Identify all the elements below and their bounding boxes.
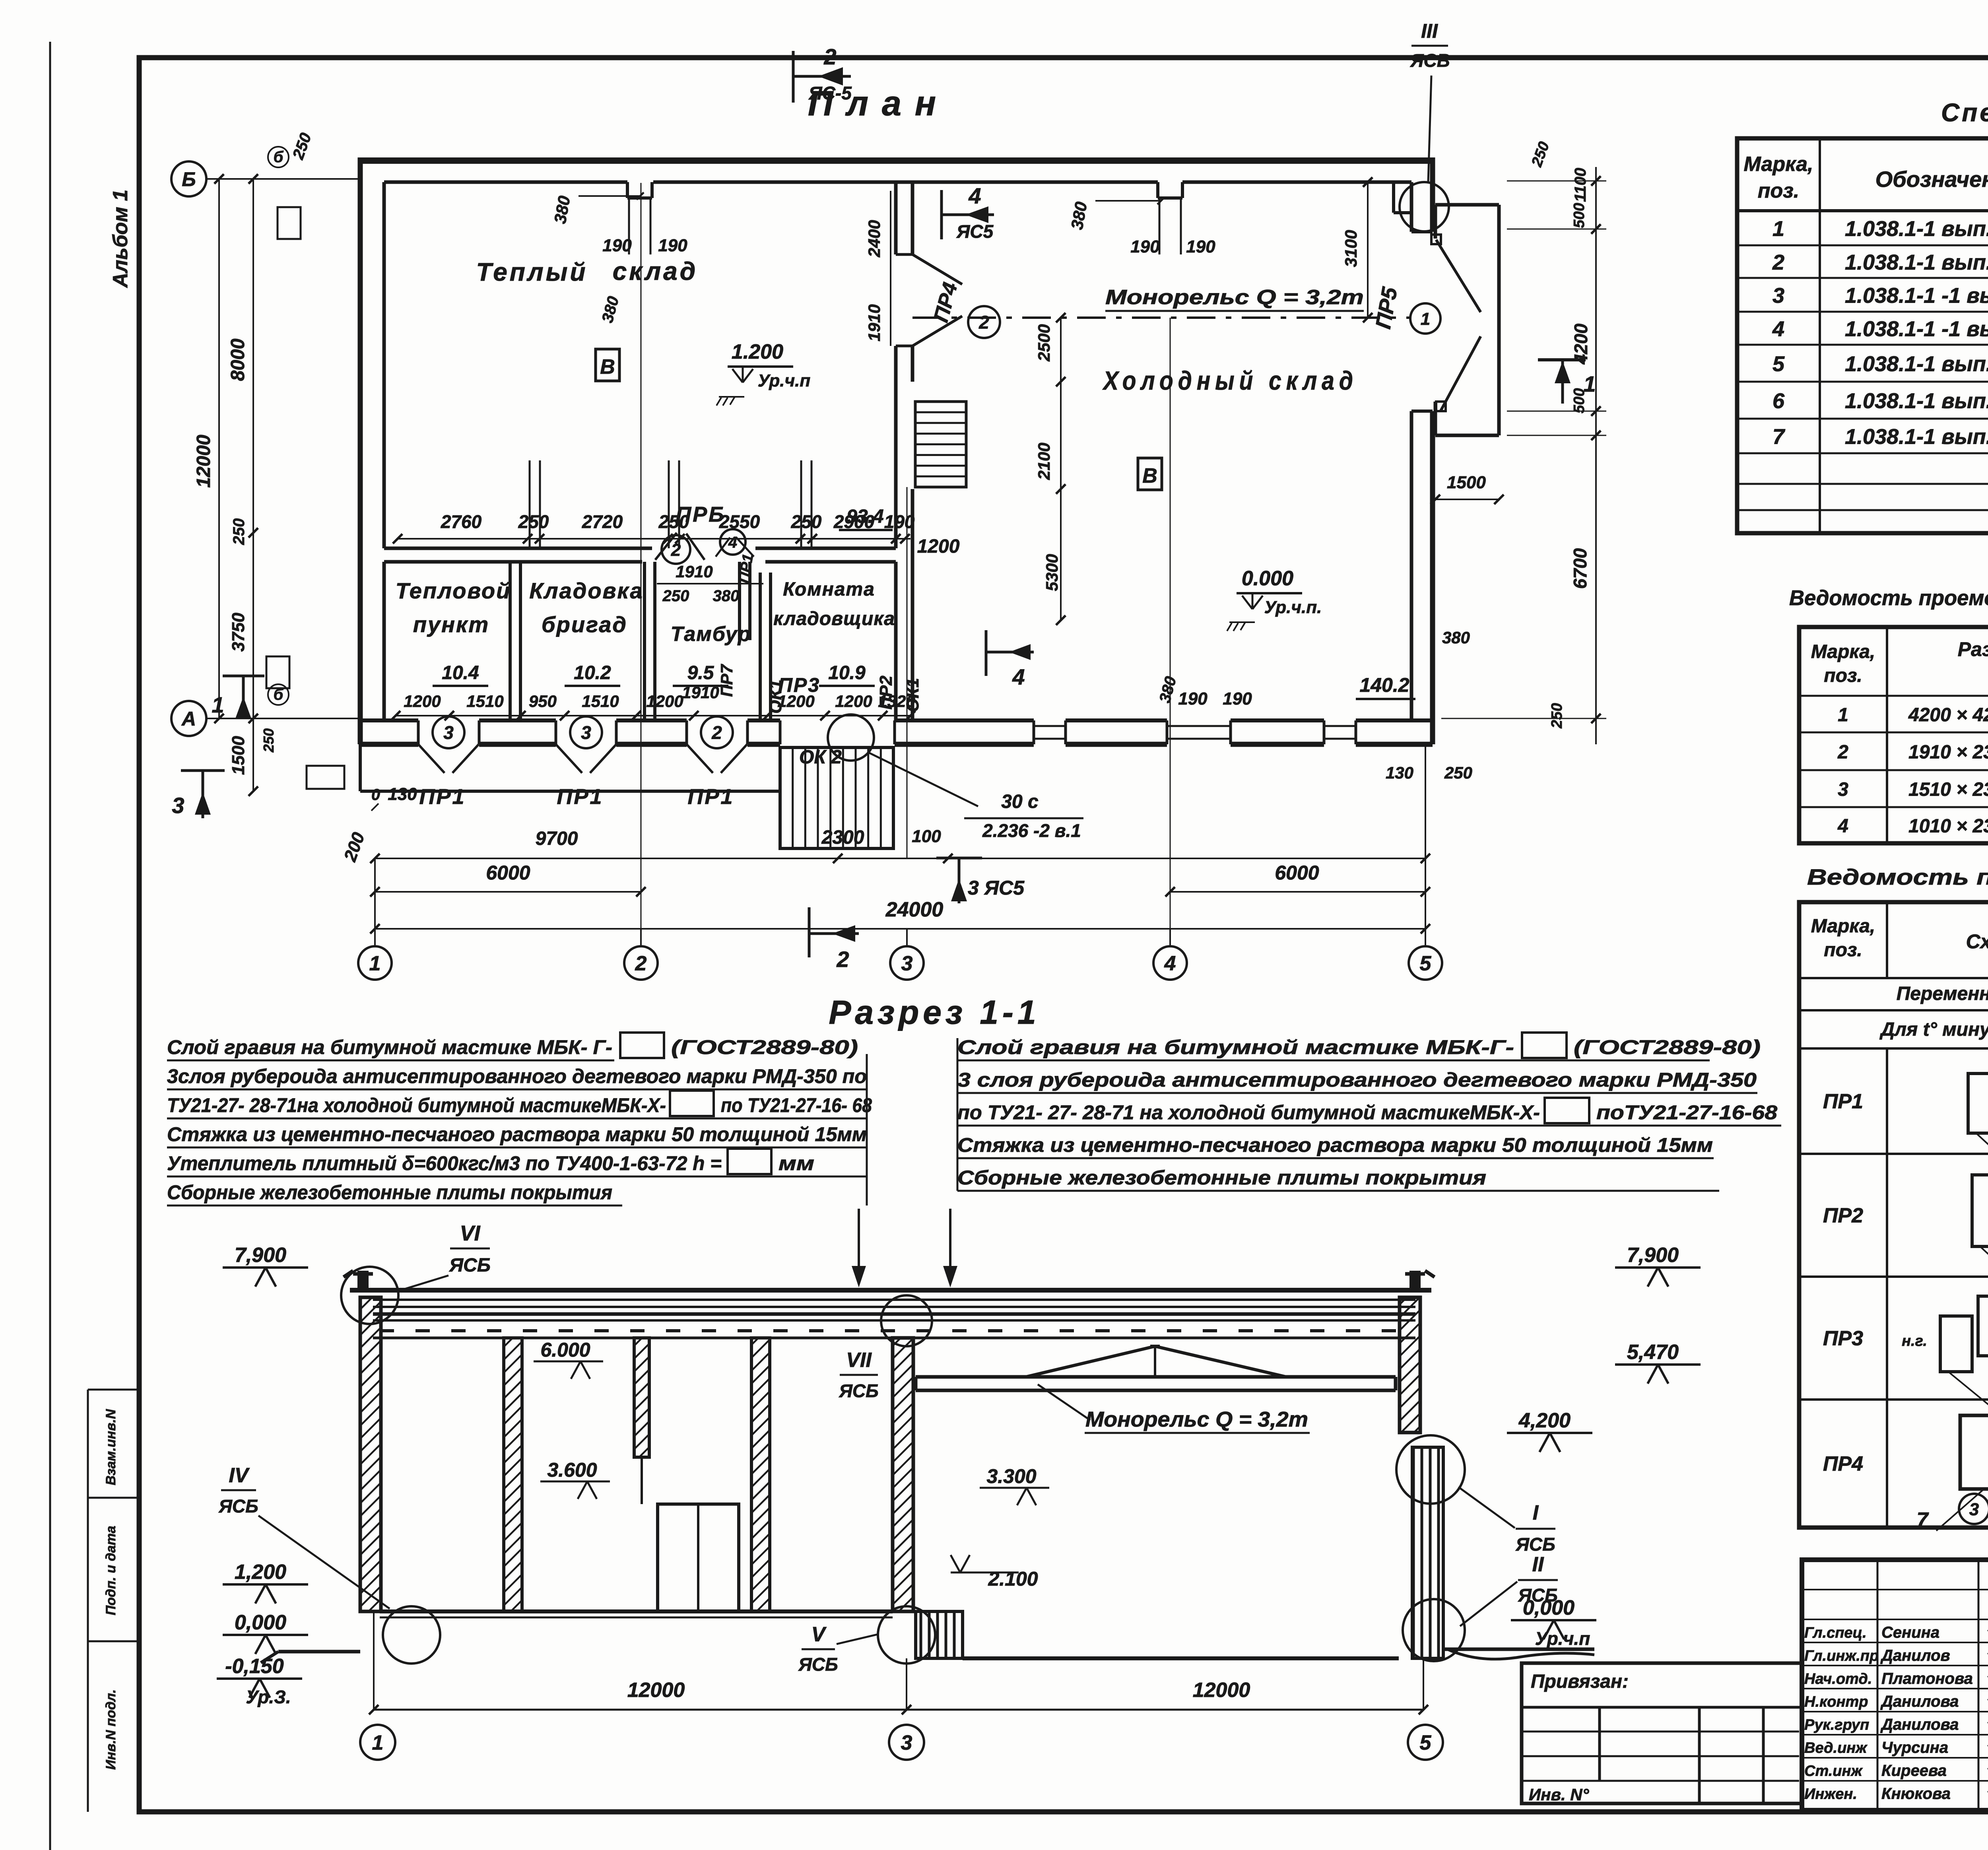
svg-text:7,900: 7,900 [235, 1244, 286, 1267]
svg-text:ЯСБ: ЯСБ [448, 1255, 491, 1276]
svg-text:по ТУ21-27-16- 68: по ТУ21-27-16- 68 [721, 1094, 872, 1116]
svg-text:0: 0 [371, 786, 380, 804]
svg-text:1: 1 [1421, 309, 1430, 329]
svg-text:2.100: 2.100 [988, 1568, 1038, 1590]
svg-text:190: 190 [884, 511, 915, 532]
svg-text:1.200: 1.200 [732, 340, 783, 363]
svg-text:2: 2 [823, 44, 836, 69]
svg-text:2: 2 [711, 722, 722, 743]
svg-text:1.038.1-1 вып.1: 1.038.1-1 вып.1 [1845, 217, 1988, 241]
svg-text:2: 2 [635, 952, 647, 975]
svg-text:ПР2: ПР2 [1823, 1204, 1863, 1227]
svg-text:Кладовка: Кладовка [529, 578, 643, 603]
svg-text:2300: 2300 [821, 827, 864, 848]
svg-text:ЯСБ: ЯСБ [839, 1380, 878, 1401]
svg-text:поз.: поз. [1824, 940, 1862, 961]
svg-text:190: 190 [1223, 689, 1252, 709]
svg-text:3: 3 [1969, 1500, 1979, 1519]
svg-text:Монорельс Q = 3,2т: Монорельс Q = 3,2т [1085, 1407, 1308, 1431]
svg-text:3: 3 [581, 722, 591, 743]
svg-text:3: 3 [901, 1732, 912, 1755]
svg-text:3100: 3100 [1342, 230, 1360, 267]
svg-text:1500: 1500 [229, 736, 248, 775]
svg-text:Теплый: Теплый [476, 258, 588, 286]
svg-text:ЯСБ: ЯСБ [218, 1496, 258, 1516]
svg-text:Гл.инж.пр: Гл.инж.пр [1804, 1648, 1879, 1664]
svg-text:2.236 -2 в.1: 2.236 -2 в.1 [982, 820, 1081, 841]
svg-text:10.9: 10.9 [828, 662, 866, 683]
svg-text:Слой гравия на битумной мастик: Слой гравия на битумной мастике МБК- Г- [167, 1036, 612, 1058]
svg-text:190: 190 [1130, 237, 1160, 256]
svg-text:0,000: 0,000 [235, 1611, 286, 1634]
svg-text:2: 2 [1837, 742, 1848, 763]
svg-text:Стяжка из цементно-песчаного р: Стяжка из цементно-песчаного раствора ма… [957, 1134, 1713, 1156]
svg-text:б: б [274, 686, 284, 703]
svg-text:(ГОСТ2889-80): (ГОСТ2889-80) [1574, 1036, 1761, 1058]
svg-text:Марка,: Марка, [1744, 153, 1813, 176]
svg-text:380: 380 [713, 587, 740, 605]
svg-text:Спецификация: Спецификация [1941, 98, 1988, 127]
svg-text:поз.: поз. [1758, 179, 1800, 202]
svg-text:4: 4 [1772, 317, 1784, 341]
svg-text:Инв.N подл.: Инв.N подл. [103, 1689, 118, 1770]
svg-text:III: III [1421, 20, 1438, 42]
svg-text:2900: 2900 [833, 511, 875, 532]
svg-text:950: 950 [529, 692, 557, 710]
svg-text:(ГОСТ2889-80): (ГОСТ2889-80) [671, 1036, 858, 1058]
svg-text:8000: 8000 [227, 338, 248, 381]
svg-text:Разрез 1-1: Разрез 1-1 [829, 994, 1040, 1031]
svg-text:5: 5 [1420, 952, 1432, 975]
svg-text:1.038.1-1 -1 вып.1: 1.038.1-1 -1 вып.1 [1845, 284, 1988, 308]
svg-text:1200: 1200 [646, 692, 683, 710]
svg-text:VII: VII [846, 1349, 872, 1372]
svg-text:1: 1 [1838, 705, 1848, 726]
svg-text:поз.: поз. [1824, 665, 1862, 686]
svg-text:Ур.ч.п.: Ур.ч.п. [1264, 598, 1322, 617]
svg-text:30 с: 30 с [1001, 791, 1038, 812]
svg-text:5: 5 [1773, 352, 1785, 376]
svg-text:250: 250 [1549, 703, 1565, 728]
svg-text:Привязан:: Привязан: [1531, 1671, 1629, 1692]
svg-text:Взам.инв.N: Взам.инв.N [103, 1409, 118, 1485]
svg-text:Вед.инж: Вед.инж [1804, 1740, 1868, 1757]
svg-text:2: 2 [836, 947, 849, 972]
svg-text:ПР1: ПР1 [557, 785, 604, 809]
svg-text:1200: 1200 [777, 692, 814, 710]
svg-text:Стяжка из цементно-песчаного р: Стяжка из цементно-песчаного раствора ма… [167, 1123, 867, 1145]
svg-text:4: 4 [728, 534, 737, 551]
svg-text:10.4: 10.4 [442, 662, 479, 683]
svg-text:130: 130 [1386, 763, 1413, 782]
svg-text:190: 190 [658, 236, 687, 255]
svg-text:4: 4 [968, 183, 981, 208]
svg-text:Платонова: Платонова [1881, 1670, 1973, 1687]
svg-text:Для t° минус 20°C; 30°C: Для t° минус 20°C; 30°C [1879, 1019, 1988, 1040]
svg-text:1510 × 2370: 1510 × 2370 [1908, 779, 1988, 800]
svg-text:3 ЯС5: 3 ЯС5 [968, 877, 1025, 899]
svg-text:Переменные данные: Переменные данные [1897, 983, 1988, 1004]
svg-text:Ведомость проемов ворот и двер: Ведомость проемов ворот и дверей [1789, 586, 1988, 610]
svg-text:ТУ21-27- 28-71на холодной биту: ТУ21-27- 28-71на холодной битумной масти… [167, 1094, 666, 1116]
svg-text:1: 1 [1773, 217, 1784, 241]
svg-text:Монорельс Q = 3,2т: Монорельс Q = 3,2т [1105, 286, 1364, 309]
svg-text:ПР1: ПР1 [1823, 1090, 1863, 1113]
svg-text:1910: 1910 [676, 562, 712, 581]
svg-text:100: 100 [912, 827, 941, 846]
svg-text:1010 × 2370: 1010 × 2370 [1908, 816, 1988, 837]
svg-text:3: 3 [1838, 779, 1848, 800]
svg-text:Инв. N°: Инв. N° [1529, 1785, 1590, 1804]
svg-text:12000: 12000 [627, 1679, 685, 1702]
svg-text:ЯС5: ЯС5 [956, 221, 994, 242]
svg-text:I: I [1533, 1501, 1539, 1524]
svg-text:склад: склад [613, 257, 698, 285]
svg-text:Сенина: Сенина [1881, 1624, 1939, 1641]
svg-text:Ур.ч.п: Ур.ч.п [758, 371, 811, 390]
svg-text:1200: 1200 [835, 692, 872, 710]
svg-text:380: 380 [1442, 628, 1470, 647]
svg-text:кладовщика: кладовщика [773, 608, 895, 629]
svg-text:1200: 1200 [404, 692, 441, 710]
svg-text:Холодный склад: Холодный склад [1102, 366, 1358, 395]
svg-text:12000: 12000 [1193, 1679, 1250, 1702]
svg-text:5: 5 [1420, 1732, 1432, 1755]
svg-text:3: 3 [1773, 284, 1784, 308]
svg-text:ПР3: ПР3 [1823, 1327, 1863, 1350]
svg-text:Комната: Комната [783, 579, 875, 600]
svg-text:Инжен.: Инжен. [1804, 1786, 1857, 1802]
svg-text:3750: 3750 [229, 613, 248, 652]
svg-text:Обозначение: Обозначение [1875, 167, 1988, 192]
svg-text:6000: 6000 [1275, 862, 1319, 884]
svg-text:2550: 2550 [719, 511, 760, 532]
svg-text:Утеплитель плитный δ=600кгс/м3: Утеплитель плитный δ=600кгс/м3 по ТУ400-… [167, 1152, 722, 1174]
svg-text:ЯСБ: ЯСБ [1515, 1534, 1555, 1555]
svg-text:1510: 1510 [582, 692, 619, 710]
svg-text:Марка,: Марка, [1811, 641, 1875, 662]
svg-text:мм: мм [779, 1152, 814, 1174]
svg-text:Сборные железобетонные плиты п: Сборные железобетонные плиты покрытия [957, 1167, 1486, 1189]
svg-text:4: 4 [1164, 952, 1176, 975]
svg-text:1510: 1510 [466, 692, 503, 710]
svg-text:Чурсина: Чурсина [1881, 1739, 1948, 1757]
svg-text:2760: 2760 [441, 511, 482, 532]
svg-text:7: 7 [1773, 425, 1786, 449]
svg-text:Ст.инж: Ст.инж [1804, 1763, 1863, 1779]
svg-text:В: В [600, 355, 615, 379]
svg-text:5300: 5300 [1043, 554, 1061, 591]
svg-text:Подп. и дата: Подп. и дата [103, 1526, 118, 1615]
svg-text:ЯС-5: ЯС-5 [808, 83, 852, 103]
svg-text:1100: 1100 [1572, 168, 1589, 202]
svg-text:ЯСБ: ЯСБ [1518, 1585, 1557, 1605]
svg-text:Нач.отд.: Нач.отд. [1804, 1671, 1872, 1687]
svg-text:Ур.ч.п: Ур.ч.п [1535, 1628, 1590, 1649]
svg-text:ОК 2: ОК 2 [799, 747, 842, 768]
svg-text:250: 250 [791, 511, 822, 532]
svg-text:V: V [812, 1623, 827, 1646]
svg-text:1.038.1-1 вып. 1: 1.038.1-1 вып. 1 [1845, 425, 1988, 449]
svg-text:2400: 2400 [865, 220, 883, 257]
svg-text:2100: 2100 [1035, 443, 1053, 480]
svg-text:7,900: 7,900 [1627, 1244, 1679, 1267]
svg-text:ЯСБ: ЯСБ [798, 1654, 838, 1675]
svg-text:9700: 9700 [536, 828, 578, 849]
svg-text:В: В [1142, 464, 1157, 487]
svg-text:Гл.спец.: Гл.спец. [1804, 1625, 1867, 1641]
svg-text:по ТУ21- 27- 28-71 на холодной: по ТУ21- 27- 28-71 на холодной битумной … [957, 1101, 1540, 1124]
svg-text:бригад: бригад [542, 612, 627, 637]
svg-text:250: 250 [1444, 763, 1472, 782]
svg-text:2500: 2500 [1035, 324, 1053, 361]
svg-text:-0,150: -0,150 [225, 1655, 284, 1678]
svg-text:2720: 2720 [582, 511, 623, 532]
svg-text:ПР7: ПР7 [717, 664, 736, 697]
svg-text:4,200: 4,200 [1518, 1409, 1571, 1432]
svg-text:Б: Б [182, 168, 196, 190]
svg-text:1910 × 2370: 1910 × 2370 [1908, 742, 1988, 763]
svg-text:3слоя рубероида антисептирован: 3слоя рубероида антисептированного дегте… [167, 1065, 867, 1087]
svg-text:Ведомость перемычек: Ведомость перемычек [1807, 864, 1988, 889]
svg-text:130: 130 [388, 784, 417, 804]
svg-text:Киреева: Киреева [1881, 1762, 1947, 1779]
svg-text:6000: 6000 [486, 862, 530, 884]
svg-text:ПР1: ПР1 [419, 785, 466, 809]
svg-text:250: 250 [260, 728, 277, 753]
svg-text:1: 1 [369, 952, 381, 975]
svg-text:12000: 12000 [193, 435, 214, 488]
svg-text:пункт: пункт [413, 612, 489, 637]
svg-text:6700: 6700 [1570, 548, 1590, 589]
svg-text:4200 × 4200: 4200 × 4200 [1908, 705, 1988, 726]
svg-text:190: 190 [602, 236, 632, 255]
svg-text:250: 250 [662, 587, 689, 605]
svg-text:Сборные железобетонные плиты п: Сборные железобетонные плиты покрытия [167, 1181, 612, 1204]
svg-text:ПР1: ПР1 [688, 785, 734, 809]
svg-text:Размер проемов: Размер проемов [1958, 638, 1988, 660]
svg-text:5,470: 5,470 [1627, 1341, 1679, 1364]
svg-text:н.г.: н.г. [1902, 1333, 1927, 1349]
svg-text:Ур.З.: Ур.З. [246, 1687, 291, 1707]
svg-text:ЯСВ: ЯСВ [1410, 50, 1450, 71]
svg-text:1910: 1910 [865, 304, 883, 341]
svg-text:0.000: 0.000 [1242, 567, 1293, 590]
svg-text:500: 500 [1571, 203, 1588, 228]
svg-text:24000: 24000 [885, 898, 944, 921]
svg-text:Тамбур: Тамбур [671, 623, 751, 646]
svg-text:Данилов: Данилов [1880, 1647, 1950, 1664]
svg-text:10.2: 10.2 [574, 662, 611, 683]
svg-text:3: 3 [443, 722, 454, 743]
svg-text:2: 2 [1772, 250, 1784, 274]
svg-text:6: 6 [1773, 389, 1785, 413]
svg-text:3.300: 3.300 [986, 1465, 1036, 1487]
svg-text:Марка,: Марка, [1811, 916, 1875, 937]
svg-text:Схема сечения: Схема сечения [1966, 930, 1988, 953]
svg-text:6.000: 6.000 [540, 1339, 590, 1361]
svg-text:IV: IV [229, 1464, 250, 1487]
svg-text:3: 3 [172, 793, 184, 818]
svg-text:1320: 1320 [878, 692, 915, 710]
svg-text:140.2: 140.2 [1359, 674, 1409, 696]
svg-text:VI: VI [460, 1221, 480, 1245]
svg-text:Кнюкова: Кнюкова [1881, 1785, 1951, 1802]
svg-text:1: 1 [372, 1732, 384, 1755]
svg-text:4: 4 [1012, 664, 1025, 689]
svg-text:А: А [181, 708, 196, 730]
svg-text:1500: 1500 [1447, 473, 1486, 492]
svg-text:Альбом 1: Альбом 1 [109, 190, 132, 289]
svg-text:Слой гравия на битумной мастик: Слой гравия на битумной мастике МБК-Г- [957, 1036, 1514, 1058]
svg-text:9.5: 9.5 [687, 662, 714, 683]
svg-text:1,200: 1,200 [235, 1561, 286, 1584]
svg-text:1.038.1-1 -1 вып.1: 1.038.1-1 -1 вып.1 [1845, 317, 1988, 341]
svg-text:Данилова: Данилова [1880, 1693, 1959, 1710]
svg-text:Рук.груп: Рук.груп [1804, 1717, 1869, 1734]
svg-text:3: 3 [901, 952, 913, 975]
svg-text:7: 7 [1917, 1508, 1929, 1532]
svg-text:250: 250 [658, 511, 689, 532]
svg-text:250: 250 [230, 518, 248, 545]
svg-text:250: 250 [518, 511, 549, 532]
svg-text:1.038.1-1 вып. 1: 1.038.1-1 вып. 1 [1845, 389, 1988, 413]
svg-text:1.038.1-1 вып.1: 1.038.1-1 вып.1 [1845, 250, 1988, 274]
svg-text:б: б [274, 148, 284, 166]
svg-text:Тепловой: Тепловой [396, 578, 511, 603]
svg-text:Данилова: Данилова [1880, 1716, 1959, 1734]
svg-text:190: 190 [1186, 237, 1215, 256]
svg-text:1: 1 [1583, 371, 1596, 396]
svg-text:Н.контр: Н.контр [1804, 1694, 1868, 1710]
svg-text:ПР4: ПР4 [1823, 1452, 1863, 1475]
svg-text:1: 1 [212, 692, 224, 717]
svg-text:3 слоя рубероида антисептирова: 3 слоя рубероида антисептированного дегт… [957, 1069, 1757, 1091]
svg-text:1.038.1-1 вып.12: 1.038.1-1 вып.12 [1845, 352, 1988, 376]
svg-text:II: II [1532, 1553, 1544, 1576]
svg-text:1910: 1910 [682, 683, 719, 702]
svg-text:2: 2 [978, 312, 989, 333]
svg-text:поТУ21-27-16-68: поТУ21-27-16-68 [1596, 1101, 1777, 1124]
svg-text:190: 190 [1178, 689, 1208, 709]
svg-text:4: 4 [1837, 816, 1848, 837]
svg-text:3.600: 3.600 [547, 1459, 597, 1481]
svg-text:1200: 1200 [917, 536, 960, 557]
